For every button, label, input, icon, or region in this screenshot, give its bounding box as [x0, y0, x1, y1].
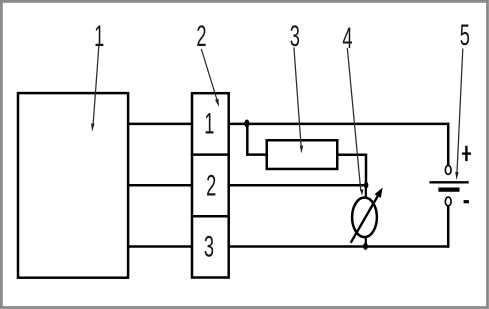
svg-text:3: 3 — [290, 21, 300, 53]
svg-text:2: 2 — [206, 170, 216, 202]
svg-text:2: 2 — [196, 21, 206, 53]
svg-text:1: 1 — [94, 21, 104, 53]
svg-text:3: 3 — [204, 231, 214, 263]
svg-text:4: 4 — [342, 23, 352, 55]
svg-text:1: 1 — [204, 108, 214, 140]
svg-text:5: 5 — [460, 20, 470, 52]
